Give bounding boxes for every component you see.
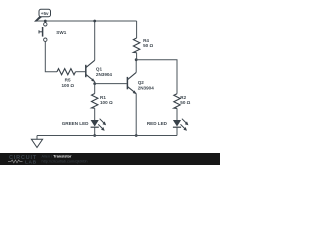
transistor Q2 — [127, 72, 136, 94]
svg-text:LAB: LAB — [25, 159, 37, 165]
wire green led to rail — [94, 127, 96, 135]
wire node to Q2 base — [95, 83, 127, 85]
wire node to R1 — [94, 84, 96, 94]
resistor R2 — [174, 94, 180, 109]
node Q2 emitter rail junction — [135, 134, 138, 137]
svg-text:GREEN LED: GREEN LED — [62, 121, 89, 126]
wire R4 drop — [136, 21, 138, 38]
resistor R5 — [57, 69, 76, 75]
svg-text:Q2: Q2 — [138, 80, 145, 85]
footer watermark bar — [0, 153, 220, 165]
node Q1 collector junction — [93, 20, 96, 23]
svg-text:2N3904: 2N3904 — [138, 85, 155, 90]
wire junction to R2 column — [136, 60, 177, 94]
vcc label +5v — [34, 9, 51, 21]
wire Q1 collector to top rail — [94, 21, 96, 60]
svg-text:Q1: Q1 — [96, 66, 103, 71]
ground — [31, 136, 42, 148]
svg-text:SW1: SW1 — [56, 30, 66, 35]
wire Q2 emitter to rail — [135, 94, 137, 136]
svg-text:100 Ω: 100 Ω — [100, 100, 113, 105]
wire Q2 collector up — [135, 60, 137, 73]
node Q1 emitter junction — [93, 82, 96, 85]
wire R5 to Q1 base — [76, 71, 86, 73]
svg-text:2N3904: 2N3904 — [96, 72, 113, 77]
wire red led to rail — [176, 127, 178, 135]
resistor R1 — [92, 94, 98, 109]
wire R1 to green led — [94, 108, 96, 120]
resistor R4 — [133, 38, 139, 53]
svg-text:100 Ω: 100 Ω — [61, 83, 74, 88]
logo CircuitLab — [8, 155, 37, 165]
wire R4 to junction — [136, 53, 138, 60]
node junction top-left — [44, 20, 47, 23]
led D1 green — [91, 119, 107, 131]
wire bottom rail — [37, 135, 177, 137]
switch SW1 — [39, 21, 47, 41]
node green led rail junction — [93, 134, 96, 137]
svg-text:50 Ω: 50 Ω — [180, 100, 190, 105]
wire SW1 to R5 — [45, 42, 57, 72]
node R4 bottom junction — [135, 58, 138, 61]
svg-text:http://circuitlab.com/cjk9rbh: http://circuitlab.com/cjk9rbh — [42, 159, 88, 163]
wire top rail +5v — [35, 20, 137, 22]
wire Q1 emitter to node — [94, 82, 96, 84]
svg-text:Allen / Transistor: Allen / Transistor — [42, 154, 72, 158]
transistor Q1 — [86, 60, 95, 82]
svg-text:R5: R5 — [65, 78, 71, 83]
svg-text:+5v: +5v — [41, 11, 49, 16]
wire R2 to red led — [176, 108, 178, 120]
svg-text:50 Ω: 50 Ω — [143, 43, 153, 48]
svg-text:RED LED: RED LED — [147, 121, 168, 126]
led D2 red — [173, 119, 189, 131]
